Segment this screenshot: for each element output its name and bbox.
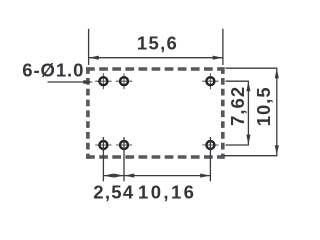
svg-text:10,5: 10,5 [253,86,274,126]
svg-text:7,62: 7,62 [227,86,248,126]
svg-text:15,6: 15,6 [137,33,178,54]
svg-text:10,16: 10,16 [138,181,196,202]
svg-text:2,54: 2,54 [93,181,134,202]
svg-text:6-Ø1.0: 6-Ø1.0 [22,60,84,81]
